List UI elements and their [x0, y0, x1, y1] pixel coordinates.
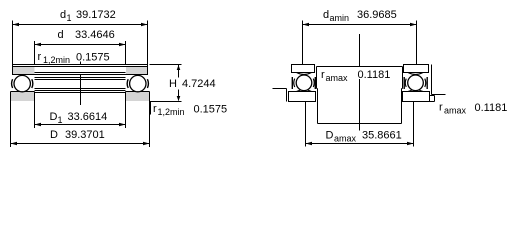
svg-text:36.9685: 36.9685: [357, 9, 397, 21]
svg-text:33.6614: 33.6614: [68, 111, 108, 123]
svg-text:D: D: [50, 111, 58, 123]
svg-text:d: d: [60, 9, 66, 21]
svg-text:0.1181: 0.1181: [358, 69, 391, 81]
svg-text:r: r: [38, 51, 42, 63]
svg-text:D: D: [50, 129, 58, 141]
svg-text:d: d: [323, 9, 329, 21]
svg-text:amin: amin: [330, 13, 350, 23]
svg-text:r: r: [321, 69, 325, 81]
svg-text:r: r: [439, 102, 443, 114]
svg-text:35.8661: 35.8661: [362, 130, 402, 142]
svg-text:amax: amax: [326, 73, 349, 83]
svg-text:r: r: [153, 103, 157, 115]
svg-text:1,2min: 1,2min: [158, 107, 185, 117]
svg-text:H: H: [169, 78, 177, 90]
svg-text:1: 1: [58, 115, 63, 125]
svg-text:39.3701: 39.3701: [65, 129, 105, 141]
svg-text:0.1181: 0.1181: [475, 102, 508, 114]
svg-text:1,2min: 1,2min: [43, 55, 70, 65]
svg-text:33.4646: 33.4646: [75, 29, 115, 41]
svg-text:0.1575: 0.1575: [194, 104, 228, 116]
svg-text:amax: amax: [444, 106, 467, 116]
svg-text:1: 1: [67, 13, 72, 23]
svg-text:amax: amax: [334, 134, 357, 144]
svg-text:39.1732: 39.1732: [76, 9, 116, 21]
svg-text:0.1575: 0.1575: [76, 52, 110, 64]
svg-text:4.7244: 4.7244: [182, 78, 216, 90]
svg-text:D: D: [326, 130, 334, 142]
svg-text:d: d: [58, 29, 64, 41]
